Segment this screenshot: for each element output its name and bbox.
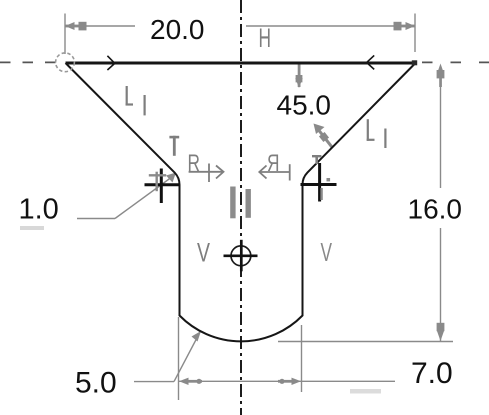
svg-text:V: V bbox=[197, 238, 210, 268]
svg-text:5.0: 5.0 bbox=[75, 367, 117, 400]
svg-text:45.0: 45.0 bbox=[277, 90, 332, 121]
svg-text:V: V bbox=[321, 237, 333, 267]
svg-text:7.0: 7.0 bbox=[411, 357, 453, 390]
svg-text:R: R bbox=[267, 150, 279, 176]
svg-text:16.0: 16.0 bbox=[408, 193, 463, 224]
svg-text:R: R bbox=[188, 150, 200, 176]
svg-text:H: H bbox=[259, 23, 272, 53]
svg-text:20.0: 20.0 bbox=[150, 14, 205, 45]
svg-text:1.0: 1.0 bbox=[19, 194, 59, 226]
